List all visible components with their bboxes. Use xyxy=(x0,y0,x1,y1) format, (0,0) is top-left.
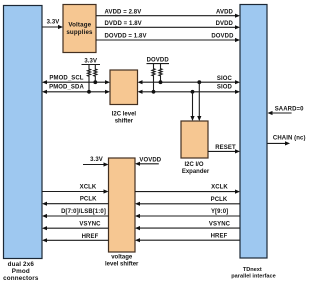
resistor: DOVDD pullup to SIOD xyxy=(152,64,156,94)
power rail: DOVDD pullup rail xyxy=(147,57,170,63)
wire: HREF left segment xyxy=(42,234,109,243)
wire: RESET xyxy=(208,145,240,153)
module: voltage level shifter xyxy=(105,158,139,268)
svg-text:DOVDD = 1.8V: DOVDD = 1.8V xyxy=(105,34,147,40)
block: TDnext parallel interface xyxy=(231,5,275,280)
svg-text:RESET: RESET xyxy=(215,145,236,151)
svg-text:shifter: shifter xyxy=(115,119,134,125)
wire: DOVDD = 1.8V net xyxy=(96,34,240,42)
wire: SIOD xyxy=(138,84,241,94)
svg-text:dual 2x6: dual 2x6 xyxy=(8,261,35,268)
resistor: DOVDD pullup to SIOC xyxy=(159,64,163,85)
svg-text:PCLK: PCLK xyxy=(80,197,97,203)
wire: VSYNC left segment xyxy=(42,222,109,231)
svg-text:DVDD: DVDD xyxy=(216,21,234,27)
svg-text:I2C I/O: I2C I/O xyxy=(184,162,203,168)
svg-text:DOVDD: DOVDD xyxy=(147,57,170,63)
svg-text:TDnext: TDnext xyxy=(243,267,262,273)
svg-text:Voltage: Voltage xyxy=(68,22,91,29)
svg-text:connectors: connectors xyxy=(3,275,39,282)
wire: PMOD_SDA xyxy=(42,85,110,94)
module: I2C level shifter xyxy=(110,70,138,125)
resistor: 3.3V pullup to PMOD_SDA xyxy=(87,65,91,94)
svg-text:Y[9:0]: Y[9:0] xyxy=(211,209,228,215)
wire: XCLK left segment xyxy=(42,185,109,194)
module: Voltage supplies xyxy=(63,5,96,53)
svg-text:3.3V: 3.3V xyxy=(47,19,60,25)
net label: SAARD=0 xyxy=(268,107,305,116)
wire: VSYNC right segment xyxy=(135,222,240,231)
wire: SIOC drop to I2C I/O Expander xyxy=(197,80,201,121)
wire: SIOD drop to I2C I/O Expander xyxy=(190,90,194,121)
wire: XCLK right segment xyxy=(135,185,240,194)
wire: DVDD = 1.8V net xyxy=(96,21,240,29)
svg-text:AVDD = 2.8V: AVDD = 2.8V xyxy=(105,9,142,15)
wire: HREF right segment xyxy=(135,234,240,243)
svg-text:VSYNC: VSYNC xyxy=(79,222,101,228)
wire: PCLK right segment xyxy=(135,197,240,206)
power stub: 3.3V to voltage level shifter xyxy=(83,157,109,166)
svg-text:D[7:0]/LSB[1:0]: D[7:0]/LSB[1:0] xyxy=(61,209,106,215)
svg-text:VSYNC: VSYNC xyxy=(209,222,231,228)
svg-text:PCLK: PCLK xyxy=(211,197,228,203)
svg-text:3.3V: 3.3V xyxy=(84,58,97,64)
svg-text:HREF: HREF xyxy=(211,234,228,240)
svg-text:I2C level: I2C level xyxy=(112,111,137,117)
svg-text:parallel interface: parallel interface xyxy=(231,273,275,279)
svg-text:CHAIN (nc): CHAIN (nc) xyxy=(273,136,306,142)
svg-text:level shifter: level shifter xyxy=(105,262,139,268)
svg-text:PMOD_SCL: PMOD_SCL xyxy=(49,75,83,81)
resistor: 3.3V pullup to PMOD_SCL xyxy=(93,65,97,85)
svg-text:SIOC: SIOC xyxy=(217,76,233,82)
svg-text:3.3V: 3.3V xyxy=(90,157,103,163)
wire: Y[9:0] xyxy=(135,209,240,218)
svg-text:XCLK: XCLK xyxy=(211,185,228,191)
svg-text:DOVDD: DOVDD xyxy=(211,34,234,40)
svg-text:SIOD: SIOD xyxy=(217,84,233,90)
wire: AVDD = 2.8V net xyxy=(96,9,240,17)
svg-text:DVDD = 1.8V: DVDD = 1.8V xyxy=(105,21,142,27)
power stub: VOVDD to voltage level shifter xyxy=(135,157,162,166)
wire: PMOD_SCL xyxy=(42,75,110,84)
svg-text:AVDD: AVDD xyxy=(216,9,234,15)
svg-text:VOVDD: VOVDD xyxy=(139,157,161,163)
wire: SIOC xyxy=(138,76,241,84)
block: dual 2x6 Pmod connectors xyxy=(3,6,42,282)
power rail: 3.3V pullup rail xyxy=(82,58,101,64)
svg-text:supplies: supplies xyxy=(66,29,93,36)
svg-text:PMOD_SDA: PMOD_SDA xyxy=(49,85,84,91)
svg-text:voltage: voltage xyxy=(111,255,133,261)
svg-text:XCLK: XCLK xyxy=(80,185,97,191)
wire: PCLK left segment xyxy=(42,197,109,206)
module: I2C I/O Expander xyxy=(181,121,210,175)
wire: 3.3V to Voltage supplies xyxy=(42,19,63,29)
svg-text:Expander: Expander xyxy=(182,169,210,175)
svg-text:HREF: HREF xyxy=(82,234,99,240)
svg-text:SAARD=0: SAARD=0 xyxy=(275,107,304,113)
net label: CHAIN (nc) xyxy=(268,136,306,146)
wire: D[7:0]/LSB[1:0] xyxy=(42,209,109,218)
